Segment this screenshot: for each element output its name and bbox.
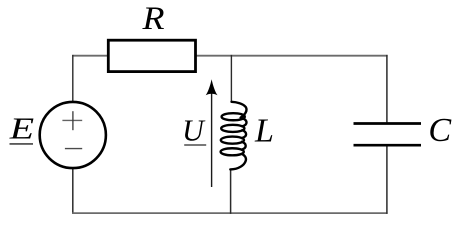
coil top hook (232, 102, 247, 118)
underline of U (184, 144, 206, 146)
coil bottom hook (230, 154, 246, 170)
wire inductor bottom lead (230, 169, 232, 214)
coil connector 3-4 (242, 142, 246, 150)
wire capacitor bottom lead (386, 146, 388, 213)
capacitor C bottom plate (354, 144, 422, 147)
voltage arrow U head (206, 79, 218, 95)
wire left vertical top (72, 55, 74, 102)
underline of E (10, 143, 34, 145)
svg-text:C: C (428, 112, 451, 149)
coil connector 2-3 (242, 130, 246, 138)
coil loop 2 (221, 125, 244, 132)
wire left vertical bottom (72, 169, 74, 214)
voltage source minus sign (65, 148, 82, 150)
wire inductor top lead (230, 55, 232, 102)
wire top rail right of resistor (197, 55, 388, 57)
coil loop 1 (222, 113, 245, 120)
inductor L coil (221, 102, 247, 170)
coil connector 1-2 (242, 118, 246, 126)
voltage source E body (40, 102, 106, 168)
resistor R1 body (108, 40, 195, 71)
svg-text:L: L (254, 113, 274, 150)
capacitor C top plate (354, 122, 422, 125)
svg-text:R: R (142, 0, 165, 36)
wire top rail (72, 55, 108, 57)
svg-text:E: E (9, 111, 35, 146)
svg-text:U: U (182, 113, 206, 147)
voltage arrow U shaft (211, 92, 213, 187)
coil loop 4 (221, 148, 244, 155)
voltage source plus sign (62, 111, 82, 130)
wire right vertical top (386, 55, 388, 123)
coil loop 3 (221, 137, 244, 144)
wire bottom rail (72, 212, 387, 214)
